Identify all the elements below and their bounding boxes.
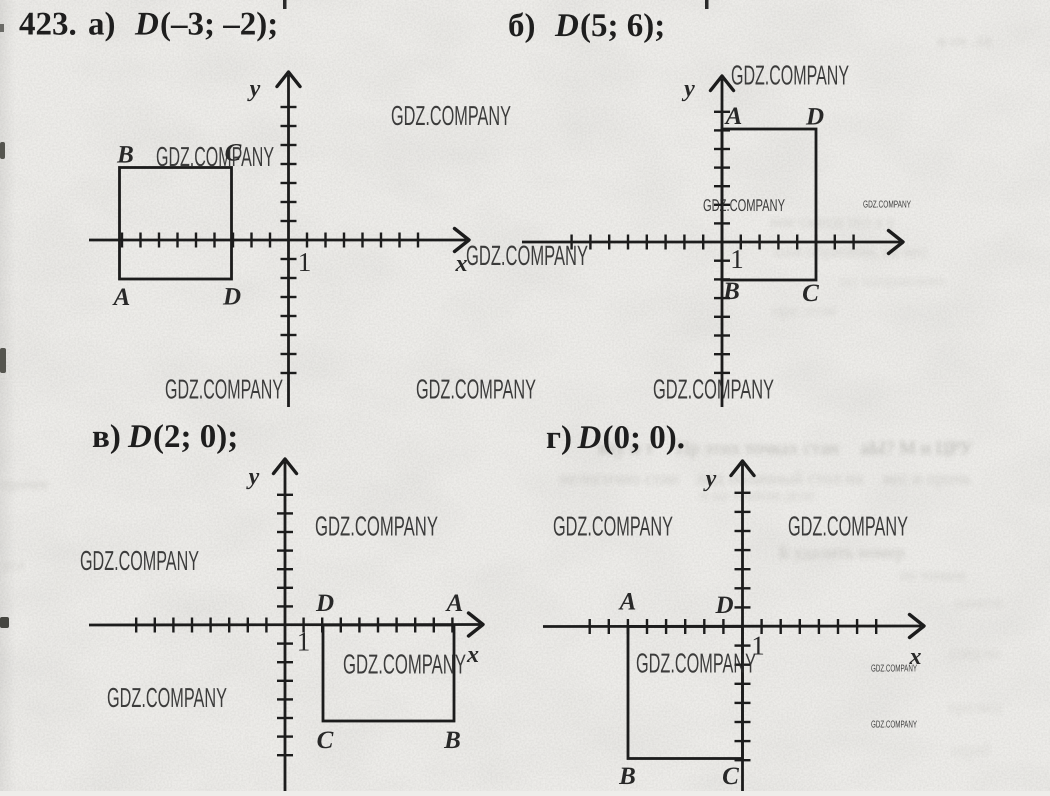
graph g square ABCD [628, 627, 743, 759]
svg-text:GDZ.COMPANY: GDZ.COMPANY [653, 374, 774, 405]
svg-text:A: A [445, 590, 464, 617]
svg-text:GDZ.COMPANY: GDZ.COMPANY [731, 60, 849, 91]
svg-text:г)D(0; 0).: г)D(0; 0). [546, 420, 685, 456]
svg-text:A: A [112, 284, 131, 311]
svg-text:1: 1 [730, 244, 744, 274]
svg-text:GDZ.COMPANY: GDZ.COMPANY [636, 648, 756, 679]
svg-text:ние смеси тел а у: ние смеси тел а у [770, 212, 896, 231]
svg-text:нелогично стан под облачный ст: нелогично стан под облачный стол навес и… [560, 468, 971, 488]
svg-text:C: C [722, 763, 739, 790]
svg-text:наметк: наметк [955, 595, 1003, 612]
svg-text:GDZ.COMPANY: GDZ.COMPANY [156, 141, 274, 172]
svg-text:A: A [724, 103, 743, 130]
graph g x ticks [590, 619, 877, 634]
svg-text:1: 1 [298, 247, 312, 277]
svg-text:y: y [247, 76, 261, 102]
svg-text:след на: след на [950, 645, 1000, 662]
graph a y-axis [287, 75, 290, 407]
svg-text:1: 1 [297, 627, 311, 657]
svg-text:y: y [681, 76, 695, 102]
scan mark top-left edge [0, 24, 4, 32]
svg-text:GDZ.COMPANY: GDZ.COMPANY [788, 511, 908, 542]
svg-text:C: C [802, 280, 819, 307]
svg-text:D: D [714, 592, 733, 619]
graph v y-axis [284, 462, 287, 791]
svg-text:GDZ.COMPANY: GDZ.COMPANY [863, 200, 911, 211]
graph b x-axis [522, 241, 900, 244]
svg-text:A: A [618, 589, 637, 616]
graph v square ABCD [323, 625, 454, 721]
svg-text:D: D [805, 104, 824, 131]
graph g y ticks [735, 493, 751, 760]
graph b y ticks [714, 112, 730, 373]
scan mark left edge upper [0, 142, 5, 159]
svg-text:б)D(5; 6);: б)D(5; 6); [508, 8, 665, 44]
svg-text:Б удалить номер: Б удалить номер [779, 542, 905, 562]
scan mark left edge at axis row [0, 617, 9, 628]
scan mark left edge middle [0, 348, 6, 373]
top page mark 1 [283, 0, 287, 9]
svg-text:GDZ.COMPANY: GDZ.COMPANY [553, 511, 673, 542]
svg-text:GDZ.COMPANY: GDZ.COMPANY [416, 374, 536, 405]
graph g y-axis [741, 464, 744, 791]
graph a square ABCD [120, 168, 232, 280]
graph a x-axis [89, 239, 466, 242]
svg-text:отраб: отраб [952, 742, 990, 759]
svg-text:и на тонком деле: и на тонком деле [700, 487, 815, 504]
svg-text:GDZ.COMPANY: GDZ.COMPANY [343, 649, 466, 680]
graph b x ticks [572, 235, 854, 250]
svg-text:B: B [722, 278, 740, 305]
graph a y ticks [281, 107, 297, 373]
graph b square ABCD [722, 129, 816, 280]
svg-text:GDZ.COMPANY: GDZ.COMPANY [107, 682, 227, 713]
svg-text:D: D [315, 590, 334, 617]
top page mark 2 [705, 0, 709, 9]
svg-text:D: D [222, 284, 241, 311]
svg-text:в)D(2; 0);: в)D(2; 0); [92, 419, 238, 455]
svg-text:GDZ.COMPANY: GDZ.COMPANY [315, 511, 438, 542]
svg-text:по тонкое: по тонкое [900, 567, 966, 584]
svg-text:GDZ.COMPANY: GDZ.COMPANY [391, 100, 511, 131]
svg-text:GDZ.COMPANY: GDZ.COMPANY [80, 545, 199, 576]
svg-text:GDZ.COMPANY: GDZ.COMPANY [703, 196, 785, 215]
svg-text:усл: усл [2, 558, 24, 574]
graph v y ticks [277, 495, 293, 755]
left edge shading [0, 0, 16, 791]
svg-text:GDZ.COMPANY: GDZ.COMPANY [466, 240, 588, 271]
svg-text:GDZ.COMPANY: GDZ.COMPANY [871, 664, 917, 675]
graph g x-axis [543, 625, 921, 628]
graph b y-axis [721, 79, 724, 407]
svg-text:GDZ.COMPANY: GDZ.COMPANY [165, 374, 283, 405]
graph v x ticks [136, 618, 452, 633]
svg-text:y: y [703, 466, 717, 492]
svg-text:B: B [116, 142, 134, 169]
svg-text:в «ч . гл: в «ч . гл [938, 33, 991, 50]
svg-text:по направлено: по направлено [840, 271, 945, 290]
svg-text:при вид: при вид [948, 699, 1001, 716]
svg-text:x: x [466, 642, 479, 668]
graph a x ticks [122, 233, 418, 248]
svg-text:прочее: прочее [2, 476, 48, 493]
svg-text:y: y [246, 464, 260, 490]
svg-text:GDZ.COMPANY: GDZ.COMPANY [871, 720, 917, 731]
svg-text:423.а)D(–3; –2);: 423.а)D(–3; –2); [19, 7, 278, 43]
svg-text:B: B [618, 763, 636, 790]
svg-text:B: B [443, 727, 461, 754]
graph v x-axis [89, 623, 480, 626]
svg-text:C: C [317, 727, 334, 754]
